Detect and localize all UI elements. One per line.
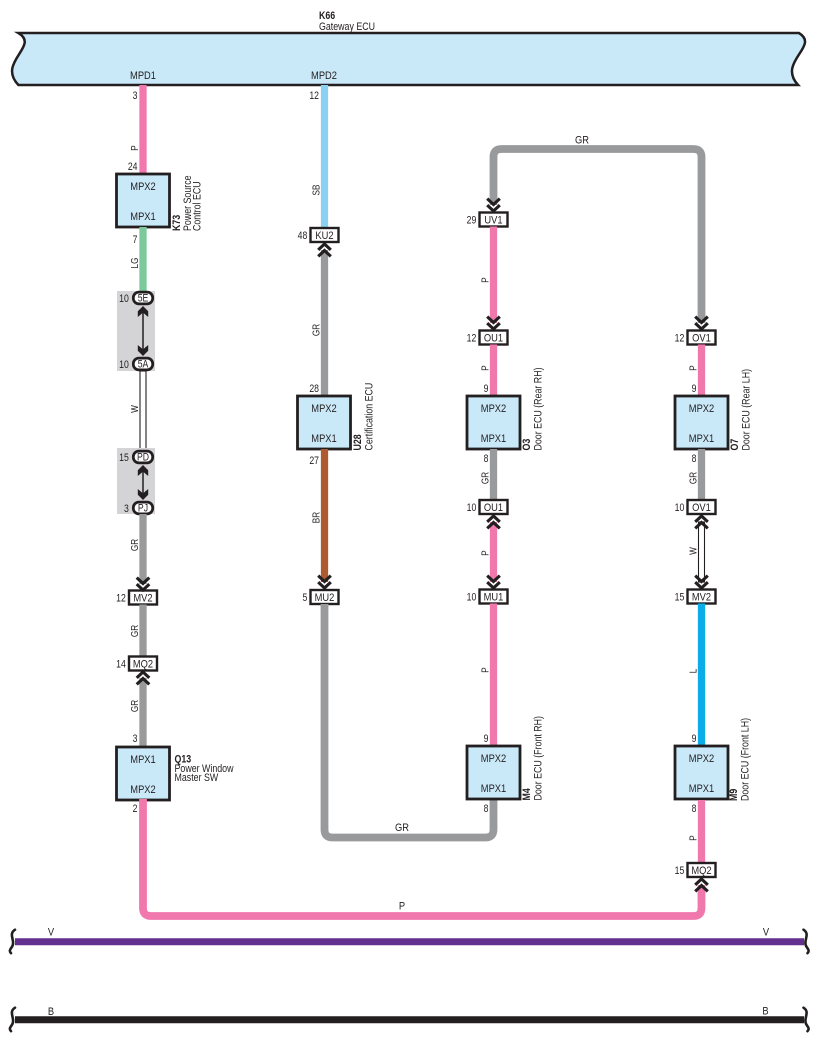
svg-text:Control ECU: Control ECU bbox=[192, 181, 204, 231]
svg-text:10: 10 bbox=[467, 502, 477, 514]
svg-text:P: P bbox=[399, 901, 405, 913]
svg-text:Master SW: Master SW bbox=[175, 772, 219, 784]
svg-text:MV2: MV2 bbox=[133, 593, 152, 605]
svg-text:B: B bbox=[762, 1006, 768, 1018]
svg-text:GR: GR bbox=[395, 822, 409, 834]
svg-text:P: P bbox=[480, 365, 491, 370]
svg-text:12: 12 bbox=[309, 90, 319, 102]
svg-text:MPX1: MPX1 bbox=[481, 783, 507, 795]
svg-text:OU1: OU1 bbox=[484, 502, 503, 514]
svg-text:M4: M4 bbox=[521, 788, 533, 801]
svg-text:GR: GR bbox=[575, 135, 589, 147]
svg-text:MPX2: MPX2 bbox=[689, 403, 715, 415]
svg-text:3: 3 bbox=[124, 503, 129, 515]
svg-text:12: 12 bbox=[116, 593, 126, 605]
svg-text:48: 48 bbox=[298, 230, 308, 242]
svg-text:OU1: OU1 bbox=[484, 333, 503, 345]
svg-text:KU2: KU2 bbox=[315, 230, 333, 242]
svg-text:5: 5 bbox=[302, 592, 307, 604]
svg-text:12: 12 bbox=[467, 333, 477, 345]
svg-text:Door ECU (Rear LH): Door ECU (Rear LH) bbox=[741, 369, 753, 451]
svg-text:MU2: MU2 bbox=[315, 592, 335, 604]
svg-text:Door ECU (Rear RH): Door ECU (Rear RH) bbox=[533, 367, 545, 450]
svg-text:MPX2: MPX2 bbox=[689, 753, 715, 765]
svg-text:15: 15 bbox=[119, 452, 129, 464]
svg-text:MPX2: MPX2 bbox=[481, 403, 507, 415]
svg-text:MPX2: MPX2 bbox=[130, 181, 156, 193]
svg-text:15: 15 bbox=[675, 592, 685, 604]
svg-text:9: 9 bbox=[692, 383, 697, 395]
svg-text:8: 8 bbox=[692, 803, 697, 815]
svg-text:8: 8 bbox=[692, 453, 697, 465]
svg-text:MPD2: MPD2 bbox=[311, 70, 337, 82]
svg-text:MPX1: MPX1 bbox=[689, 433, 715, 445]
svg-text:MV2: MV2 bbox=[692, 592, 711, 604]
svg-text:Certification ECU: Certification ECU bbox=[364, 383, 376, 451]
svg-text:LG: LG bbox=[129, 258, 140, 269]
svg-text:O7: O7 bbox=[729, 438, 741, 450]
svg-text:U28: U28 bbox=[352, 434, 364, 451]
svg-text:Door ECU (Front RH): Door ECU (Front RH) bbox=[533, 716, 545, 801]
svg-text:MU1: MU1 bbox=[484, 592, 504, 604]
svg-text:OV1: OV1 bbox=[692, 502, 711, 514]
svg-text:MPD1: MPD1 bbox=[130, 70, 156, 82]
svg-text:MPX2: MPX2 bbox=[311, 403, 337, 415]
svg-text:Gateway ECU: Gateway ECU bbox=[319, 21, 375, 33]
svg-text:7: 7 bbox=[133, 234, 138, 246]
svg-text:MPX1: MPX1 bbox=[689, 783, 715, 795]
svg-text:P: P bbox=[480, 667, 491, 672]
svg-text:P: P bbox=[688, 365, 699, 370]
svg-text:O3: O3 bbox=[521, 438, 533, 450]
svg-text:29: 29 bbox=[467, 215, 477, 227]
svg-text:V: V bbox=[48, 927, 54, 939]
svg-text:5E: 5E bbox=[138, 293, 149, 305]
svg-text:MQ2: MQ2 bbox=[133, 659, 153, 671]
svg-text:GR: GR bbox=[129, 699, 140, 712]
svg-text:BR: BR bbox=[311, 511, 322, 523]
svg-text:W: W bbox=[688, 547, 699, 555]
svg-text:P: P bbox=[688, 835, 699, 840]
svg-text:27: 27 bbox=[309, 455, 319, 467]
svg-text:L: L bbox=[688, 669, 699, 674]
svg-text:V: V bbox=[763, 927, 769, 939]
svg-text:M9: M9 bbox=[728, 788, 740, 801]
svg-text:GR: GR bbox=[129, 538, 140, 551]
svg-text:5A: 5A bbox=[138, 359, 149, 371]
svg-text:9: 9 bbox=[484, 383, 489, 395]
svg-text:GR: GR bbox=[129, 624, 140, 637]
svg-text:14: 14 bbox=[116, 659, 126, 671]
svg-text:GR: GR bbox=[688, 471, 699, 484]
svg-text:MPX1: MPX1 bbox=[130, 211, 156, 223]
svg-text:MPX1: MPX1 bbox=[130, 754, 156, 766]
svg-text:10: 10 bbox=[675, 502, 685, 514]
svg-text:3: 3 bbox=[133, 90, 138, 102]
svg-text:MPX1: MPX1 bbox=[481, 433, 507, 445]
svg-text:8: 8 bbox=[484, 803, 489, 815]
svg-text:12: 12 bbox=[675, 333, 685, 345]
svg-text:GR: GR bbox=[311, 323, 322, 336]
svg-text:MPX2: MPX2 bbox=[481, 753, 507, 765]
svg-text:2: 2 bbox=[133, 803, 138, 815]
svg-text:GR: GR bbox=[480, 471, 491, 484]
svg-text:24: 24 bbox=[128, 161, 138, 173]
svg-text:P: P bbox=[129, 145, 140, 150]
svg-text:UV1: UV1 bbox=[484, 215, 502, 227]
svg-text:10: 10 bbox=[467, 592, 477, 604]
svg-text:9: 9 bbox=[484, 733, 489, 745]
svg-text:B: B bbox=[48, 1006, 54, 1018]
svg-text:W: W bbox=[129, 405, 140, 413]
svg-text:10: 10 bbox=[119, 359, 129, 371]
svg-text:OV1: OV1 bbox=[692, 333, 711, 345]
svg-text:9: 9 bbox=[692, 733, 697, 745]
svg-text:MPX1: MPX1 bbox=[311, 433, 337, 445]
svg-text:MQ2: MQ2 bbox=[691, 865, 711, 877]
svg-text:P: P bbox=[480, 277, 491, 282]
svg-text:15: 15 bbox=[675, 865, 685, 877]
svg-text:28: 28 bbox=[309, 383, 319, 395]
svg-text:8: 8 bbox=[484, 453, 489, 465]
svg-text:MPX2: MPX2 bbox=[130, 784, 156, 796]
svg-text:10: 10 bbox=[119, 293, 129, 305]
svg-text:3: 3 bbox=[133, 733, 138, 745]
svg-text:PJ: PJ bbox=[138, 503, 148, 515]
svg-text:P: P bbox=[480, 550, 491, 555]
svg-text:Door ECU (Front LH): Door ECU (Front LH) bbox=[740, 718, 752, 801]
svg-text:PD: PD bbox=[137, 452, 149, 464]
svg-text:SB: SB bbox=[311, 185, 322, 196]
